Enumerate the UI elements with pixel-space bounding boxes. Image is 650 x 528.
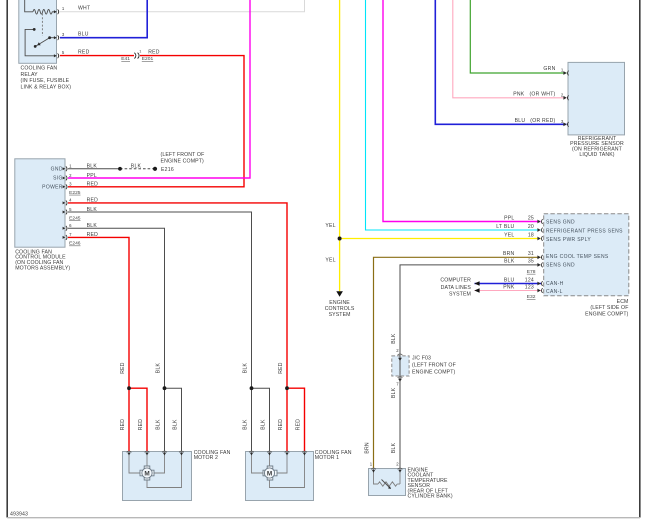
svg-text:(LEFT FRONT OF: (LEFT FRONT OF — [161, 152, 205, 158]
svg-text:RELAY: RELAY — [21, 72, 39, 78]
svg-text:ENGINE COMPT): ENGINE COMPT) — [412, 369, 456, 375]
svg-text:2: 2 — [396, 348, 399, 353]
svg-text:BLK: BLK — [156, 419, 162, 430]
svg-text:GND: GND — [51, 167, 63, 173]
svg-text:SENS PWR SPLY: SENS PWR SPLY — [546, 237, 591, 243]
svg-text:ENGINE COMPT): ENGINE COMPT) — [585, 311, 629, 317]
svg-text:ENGINE COMPT): ENGINE COMPT) — [161, 158, 205, 164]
svg-text:CAN-L: CAN-L — [546, 289, 563, 295]
svg-text:5: 5 — [69, 207, 72, 212]
svg-text:RED: RED — [120, 419, 126, 431]
svg-text:COMPUTER: COMPUTER — [440, 278, 471, 284]
svg-text:6: 6 — [69, 223, 72, 228]
svg-text:BLK: BLK — [391, 387, 397, 398]
svg-text:1: 1 — [370, 461, 373, 466]
svg-text:124: 124 — [525, 277, 534, 283]
svg-text:20: 20 — [528, 224, 534, 230]
svg-text:RED: RED — [78, 49, 90, 55]
svg-text:7: 7 — [69, 232, 72, 237]
svg-text:LINK & RELAY BOX): LINK & RELAY BOX) — [21, 85, 72, 91]
svg-text:BLK: BLK — [391, 442, 397, 453]
svg-text:PNK (OR WHT): PNK (OR WHT) — [513, 91, 555, 97]
svg-text:ECM: ECM — [617, 299, 629, 305]
svg-text:POWER: POWER — [42, 185, 63, 191]
svg-text:SIG: SIG — [53, 176, 63, 182]
svg-text:BLK: BLK — [173, 419, 179, 430]
svg-text:BLK: BLK — [391, 333, 397, 344]
svg-text:31: 31 — [528, 251, 534, 257]
svg-text:SYSTEM: SYSTEM — [449, 292, 471, 298]
svg-text:3: 3 — [69, 182, 72, 187]
svg-text:DATA LINES: DATA LINES — [441, 285, 472, 291]
svg-text:MOTORS ASSEMBLY): MOTORS ASSEMBLY) — [15, 265, 70, 271]
svg-text:25: 25 — [528, 215, 534, 221]
svg-text:ENG COOL TEMP SENS: ENG COOL TEMP SENS — [546, 254, 609, 260]
svg-text:BLK: BLK — [243, 419, 249, 430]
svg-text:BLK: BLK — [87, 207, 98, 213]
svg-text:CONTROLS: CONTROLS — [325, 306, 355, 312]
svg-text:E245: E245 — [69, 215, 81, 221]
svg-text:CAN-H: CAN-H — [546, 281, 564, 287]
svg-text:1: 1 — [62, 6, 65, 11]
svg-text:(LEFT FRONT OF: (LEFT FRONT OF — [412, 362, 456, 368]
svg-text:REFRIGERANT PRESS SENS: REFRIGERANT PRESS SENS — [546, 229, 623, 235]
svg-text:RED: RED — [87, 182, 99, 188]
svg-text:7: 7 — [396, 382, 399, 387]
svg-text:YEL: YEL — [325, 258, 335, 264]
svg-text:M: M — [144, 470, 149, 477]
svg-text:SENS GND: SENS GND — [546, 220, 575, 226]
svg-text:BLU (OR RED): BLU (OR RED) — [515, 118, 556, 124]
svg-text:SENS GND: SENS GND — [546, 263, 575, 269]
svg-text:GRN: GRN — [543, 66, 555, 72]
svg-text:E201: E201 — [142, 56, 154, 62]
svg-text:WHT: WHT — [78, 6, 90, 12]
svg-text:4: 4 — [69, 198, 72, 203]
svg-text:BLK: BLK — [156, 362, 162, 373]
svg-text:(LEFT SIDE OF: (LEFT SIDE OF — [590, 305, 628, 311]
svg-text:18: 18 — [528, 232, 534, 238]
svg-text:E225: E225 — [69, 190, 81, 196]
svg-text:MOTOR 1: MOTOR 1 — [315, 455, 339, 461]
svg-text:MOTOR 2: MOTOR 2 — [194, 455, 218, 461]
svg-text:LIQUID TANK): LIQUID TANK) — [579, 152, 614, 158]
svg-text:J/C F03: J/C F03 — [412, 356, 431, 362]
svg-text:2: 2 — [396, 461, 399, 466]
svg-text:M: M — [267, 470, 272, 477]
svg-text:(IN FUSE, FUSIBLE: (IN FUSE, FUSIBLE — [21, 78, 70, 84]
svg-text:RED: RED — [87, 232, 99, 238]
svg-text:BLU: BLU — [78, 31, 89, 37]
svg-text:493943: 493943 — [10, 512, 28, 518]
svg-text:2: 2 — [69, 173, 72, 178]
svg-text:PPL: PPL — [87, 173, 97, 179]
svg-text:CYLINDER BANK): CYLINDER BANK) — [408, 494, 453, 500]
svg-text:ENGINE: ENGINE — [329, 300, 350, 306]
svg-text:YEL: YEL — [504, 232, 514, 238]
svg-text:1: 1 — [69, 164, 72, 169]
svg-text:RED: RED — [138, 419, 144, 431]
svg-text:3: 3 — [62, 32, 65, 37]
svg-text:5: 5 — [62, 50, 65, 55]
svg-text:RED: RED — [278, 362, 284, 374]
svg-text:BLK: BLK — [243, 362, 249, 373]
svg-text:123: 123 — [525, 284, 534, 290]
svg-text:RED: RED — [87, 198, 99, 204]
svg-text:E32: E32 — [527, 294, 536, 300]
svg-text:PPL: PPL — [504, 215, 514, 221]
svg-text:BLK: BLK — [87, 164, 98, 170]
svg-text:SYSTEM: SYSTEM — [329, 312, 351, 318]
svg-text:LT BLU: LT BLU — [496, 224, 514, 230]
svg-text:35: 35 — [528, 259, 534, 265]
svg-text:E246: E246 — [69, 241, 81, 247]
svg-text:E78: E78 — [527, 269, 536, 275]
svg-text:COOLING FAN: COOLING FAN — [21, 65, 58, 71]
svg-text:BLK: BLK — [131, 164, 142, 170]
svg-text:BRN: BRN — [503, 251, 515, 257]
svg-text:BLK: BLK — [87, 223, 98, 229]
svg-text:BLK: BLK — [504, 259, 515, 265]
svg-text:E216: E216 — [161, 167, 174, 173]
svg-text:YEL: YEL — [325, 223, 335, 229]
svg-text:RED: RED — [296, 419, 302, 431]
svg-text:RED: RED — [278, 419, 284, 431]
svg-text:E41: E41 — [121, 56, 130, 62]
svg-text:RED: RED — [120, 362, 126, 374]
svg-text:BRN: BRN — [365, 442, 371, 454]
svg-text:RED: RED — [148, 49, 160, 55]
svg-text:BLU: BLU — [504, 277, 515, 283]
svg-text:1: 1 — [139, 50, 141, 54]
svg-text:PNK: PNK — [503, 284, 515, 290]
svg-text:BLK: BLK — [261, 419, 267, 430]
